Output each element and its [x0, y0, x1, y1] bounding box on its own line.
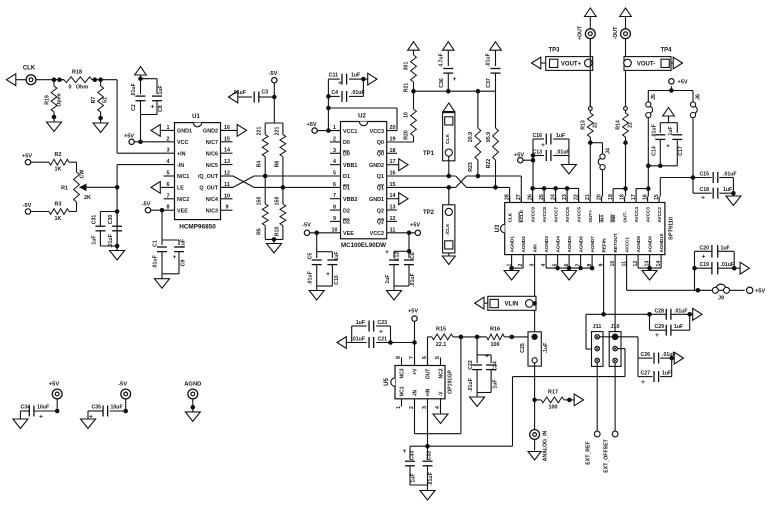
svg-text:+5V: +5V [408, 309, 418, 315]
svg-text:AVCC4: AVCC4 [634, 207, 639, 223]
svg-text:AVCC5: AVCC5 [577, 207, 582, 223]
svg-text:AGND1: AGND1 [510, 236, 515, 253]
svg-text:VCC1: VCC1 [343, 129, 357, 135]
svg-text:R14: R14 [616, 120, 622, 130]
svg-text:C22: C22 [468, 360, 474, 370]
svg-text:.01uF: .01uF [662, 352, 676, 358]
svg-text:AVCC9: AVCC9 [531, 207, 536, 223]
svg-text:Q0: Q0 [377, 140, 384, 146]
svg-text:GND2: GND2 [203, 129, 218, 135]
svg-text:Ohm: Ohm [76, 85, 88, 91]
svg-text:CLK: CLK [23, 66, 36, 72]
svg-text:LE: LE [177, 186, 184, 192]
svg-text:U1: U1 [192, 114, 200, 120]
svg-text:U3: U3 [495, 224, 501, 232]
svg-text:-5V: -5V [118, 382, 127, 388]
svg-text:AGND10: AGND10 [659, 233, 664, 252]
svg-text:R7: R7 [91, 97, 97, 104]
svg-text:+: + [655, 332, 659, 339]
svg-text:CW: CW [80, 170, 86, 179]
svg-text:CLK: CLK [445, 134, 451, 144]
svg-text:+: + [485, 353, 489, 360]
svg-text:1uF: 1uF [668, 126, 674, 135]
svg-text:U2: U2 [358, 114, 366, 120]
svg-text:VLIN: VLIN [505, 302, 519, 308]
svg-text:OP191GP: OP191GP [448, 370, 454, 394]
svg-text:INA: INA [600, 214, 605, 223]
svg-text:OUT-: OUT- [623, 211, 628, 223]
svg-text:EXT_REF: EXT_REF [586, 441, 592, 464]
svg-text:VBB2: VBB2 [343, 197, 357, 203]
svg-text:OUT+: OUT+ [588, 210, 593, 223]
svg-text:10uF: 10uF [111, 405, 123, 411]
svg-text:+IN: +IN [425, 388, 431, 396]
svg-text:221: 221 [275, 127, 281, 136]
svg-text:1uF: 1uF [181, 239, 187, 248]
svg-text:150: 150 [275, 197, 281, 206]
svg-text:Q1: Q1 [377, 174, 384, 180]
svg-text:OUT: OUT [425, 369, 431, 380]
svg-text:1uF: 1uF [158, 85, 164, 94]
svg-text:R20: R20 [404, 130, 410, 140]
svg-text:+V: +V [412, 368, 418, 375]
svg-text:C4: C4 [331, 90, 338, 96]
svg-text:-V: -V [438, 391, 444, 397]
svg-text:AVCC3: AVCC3 [646, 207, 651, 223]
svg-text:+: + [701, 195, 705, 202]
svg-text:N/C1: N/C1 [177, 174, 189, 180]
svg-text:R21: R21 [404, 83, 410, 93]
svg-text:.01uF: .01uF [351, 337, 365, 343]
svg-text:N/C3: N/C3 [206, 208, 218, 214]
svg-text:J11: J11 [593, 324, 602, 330]
svg-text:+5V: +5V [755, 289, 765, 295]
svg-text:CLK: CLK [508, 212, 513, 222]
svg-text:R2: R2 [55, 152, 62, 158]
svg-text:+5V: +5V [678, 80, 688, 86]
svg-text:+: + [379, 329, 383, 336]
svg-text:1uF: 1uF [723, 187, 732, 193]
svg-text:AGND5: AGND5 [567, 236, 572, 253]
svg-text:150: 150 [256, 197, 262, 206]
svg-text:C9: C9 [181, 260, 187, 267]
svg-text:0: 0 [69, 85, 72, 91]
svg-text:.01uF: .01uF [556, 150, 570, 156]
svg-text:AVCC8: AVCC8 [542, 207, 547, 223]
svg-text:-IN: -IN [412, 389, 418, 396]
svg-text:HCMP96850: HCMP96850 [179, 224, 216, 231]
svg-text:C30: C30 [108, 215, 114, 225]
svg-text:N/C6: N/C6 [206, 151, 218, 157]
svg-text:+: + [453, 76, 457, 83]
svg-text:.01uF: .01uF [486, 53, 492, 67]
svg-text:6: 6 [333, 182, 336, 188]
svg-text:C37: C37 [486, 78, 492, 88]
svg-text:+: + [173, 254, 177, 261]
svg-text:.01uF: .01uF [723, 172, 737, 178]
svg-text:.01uF: .01uF [131, 83, 137, 97]
svg-text:1uF: 1uF [674, 324, 683, 330]
svg-text:N/C2: N/C2 [177, 197, 189, 203]
svg-text:+: + [702, 254, 706, 261]
svg-text:22.1: 22.1 [436, 342, 447, 348]
svg-text:2K: 2K [84, 195, 91, 201]
svg-text:1uF: 1uF [356, 320, 365, 326]
svg-text:VCC: VCC [177, 140, 188, 146]
svg-text:J6: J6 [696, 94, 702, 100]
svg-text:GND1: GND1 [369, 197, 384, 203]
svg-text:+: + [385, 249, 389, 256]
svg-text:TP4: TP4 [660, 48, 672, 54]
svg-text:.1uF: .1uF [543, 343, 549, 354]
svg-text:.01uF: .01uF [410, 273, 416, 287]
svg-text:REFIN: REFIN [602, 238, 607, 253]
svg-text:VOUT-: VOUT- [637, 62, 655, 68]
svg-text:R15: R15 [436, 327, 446, 333]
svg-text:+: + [666, 143, 670, 150]
svg-text:1uF: 1uF [662, 371, 671, 377]
svg-text:C24: C24 [492, 361, 498, 371]
svg-text:1uF: 1uF [385, 274, 391, 283]
svg-text:AVCC6: AVCC6 [565, 207, 570, 223]
svg-text:R18: R18 [72, 70, 82, 76]
svg-text:VOUT+: VOUT+ [561, 62, 582, 68]
svg-text:-OUT: -OUT [613, 26, 619, 40]
svg-text:NC1: NC1 [399, 386, 405, 396]
svg-text:C28: C28 [654, 308, 664, 314]
svg-text:C12: C12 [395, 252, 401, 262]
svg-text:C8: C8 [158, 105, 164, 112]
svg-text:95.9: 95.9 [486, 132, 492, 142]
svg-text:.01uF: .01uF [108, 234, 114, 248]
svg-text:AGND: AGND [184, 382, 201, 388]
svg-text:VCC3: VCC3 [370, 129, 384, 135]
svg-text:AGND7: AGND7 [590, 236, 595, 253]
svg-text:C32: C32 [427, 451, 433, 461]
svg-text:-IN: -IN [177, 163, 184, 169]
svg-text:NC3: NC3 [399, 368, 405, 378]
svg-text:AGND6: AGND6 [579, 236, 584, 253]
svg-text:221: 221 [256, 127, 262, 136]
svg-text:AGND3: AGND3 [544, 236, 549, 253]
svg-text:C2: C2 [131, 104, 137, 111]
svg-text:D2: D2 [343, 220, 350, 226]
svg-text:Q2: Q2 [377, 220, 384, 226]
svg-text:10: 10 [404, 112, 410, 118]
svg-text:1uF: 1uF [92, 235, 98, 244]
svg-text:J4: J4 [606, 148, 612, 154]
svg-text:R13: R13 [581, 120, 587, 130]
svg-text:C6: C6 [410, 252, 416, 259]
svg-text:INB: INB [611, 214, 616, 223]
svg-text:+: + [151, 104, 155, 111]
svg-text:R5: R5 [256, 228, 262, 235]
svg-text:+: + [641, 379, 645, 386]
svg-text:C31: C31 [92, 215, 98, 225]
svg-text:100: 100 [549, 405, 558, 411]
svg-text:+: + [39, 414, 43, 421]
svg-text:.01uF: .01uF [721, 262, 735, 268]
svg-text:C11: C11 [329, 73, 338, 79]
svg-text:C1: C1 [153, 240, 159, 247]
svg-text:1uF: 1uF [351, 73, 360, 79]
svg-text:AGND4: AGND4 [556, 236, 561, 253]
svg-text:D0: D0 [343, 152, 350, 158]
svg-text:N/C5: N/C5 [206, 163, 218, 169]
svg-text:+5V: +5V [49, 382, 60, 388]
svg-text:Q1: Q1 [377, 186, 384, 192]
svg-text:+IN: +IN [177, 151, 186, 157]
svg-text:C17: C17 [678, 146, 684, 156]
svg-text:C27: C27 [640, 371, 650, 377]
svg-text:EXT_OFFSET: EXT_OFFSET [604, 438, 610, 472]
svg-text:+: + [403, 448, 407, 455]
svg-text:C35: C35 [91, 405, 101, 411]
svg-text:R4: R4 [256, 161, 262, 168]
svg-text:+: + [326, 271, 330, 278]
svg-text:1K: 1K [55, 167, 62, 173]
svg-text:VBB1: VBB1 [343, 163, 357, 169]
svg-text:C16: C16 [532, 133, 542, 139]
svg-text:N/C4: N/C4 [206, 197, 218, 203]
svg-text:+5V: +5V [306, 122, 316, 128]
svg-text:C33: C33 [410, 451, 416, 461]
svg-text:C36: C36 [439, 78, 445, 88]
svg-text:C5: C5 [308, 253, 314, 260]
svg-text:R22: R22 [486, 159, 492, 169]
svg-text:+: + [541, 142, 545, 149]
svg-text:C23: C23 [378, 320, 388, 326]
svg-text:22: 22 [593, 122, 599, 128]
svg-text:1uF: 1uF [492, 379, 498, 388]
svg-text:R6: R6 [275, 161, 281, 168]
svg-text:.01uF: .01uF [232, 90, 246, 96]
svg-text:C34: C34 [20, 405, 30, 411]
svg-text:4.7uF: 4.7uF [439, 53, 445, 67]
svg-text:Q2: Q2 [377, 208, 384, 214]
svg-text:100: 100 [491, 342, 500, 348]
svg-text:.01uF: .01uF [468, 378, 474, 392]
svg-text:C15: C15 [699, 172, 709, 178]
svg-text:R10: R10 [275, 227, 281, 237]
svg-text:ECLK: ECLK [519, 209, 524, 222]
svg-text:AIN: AIN [533, 244, 538, 253]
svg-text:5: 5 [333, 171, 336, 177]
svg-text:.01uF: .01uF [153, 255, 159, 269]
svg-text:GND2: GND2 [369, 163, 384, 169]
svg-text:N/C7: N/C7 [206, 140, 218, 146]
svg-text:C29: C29 [654, 324, 664, 330]
svg-text:VEE: VEE [343, 231, 354, 237]
svg-text:R3: R3 [55, 202, 62, 208]
svg-text:+5V: +5V [124, 134, 134, 140]
svg-text:R23: R23 [468, 162, 474, 172]
svg-text:MC100EL90DW: MC100EL90DW [341, 242, 386, 249]
svg-text:1uF: 1uF [721, 245, 730, 251]
svg-text:4: 4 [167, 159, 170, 165]
svg-text:C10: C10 [334, 275, 340, 285]
svg-text:-5V: -5V [269, 71, 278, 77]
svg-text:Q0: Q0 [377, 152, 384, 158]
svg-text:GND1: GND1 [177, 129, 192, 135]
svg-text:20.9: 20.9 [468, 132, 474, 142]
svg-text:D2: D2 [343, 208, 350, 214]
svg-text:TP1: TP1 [423, 151, 435, 157]
svg-text:C20: C20 [699, 245, 709, 251]
svg-text:C14: C14 [651, 146, 657, 156]
svg-text:C25: C25 [520, 343, 526, 353]
svg-text:3: 3 [167, 148, 170, 154]
svg-text:1uF: 1uF [411, 473, 417, 482]
svg-text:AVCC2: AVCC2 [657, 207, 662, 223]
svg-text:R17: R17 [548, 390, 558, 396]
svg-text:+OUT: +OUT [578, 25, 584, 40]
svg-text:-5V: -5V [23, 203, 32, 209]
svg-text:51: 51 [103, 97, 109, 103]
svg-text:+: + [338, 80, 342, 87]
svg-text:TP2: TP2 [423, 210, 435, 216]
svg-text:C21: C21 [378, 337, 388, 343]
svg-text:ANALOG_IN: ANALOG_IN [543, 430, 549, 461]
svg-text:10uF: 10uF [37, 405, 49, 411]
svg-text:C19: C19 [699, 262, 709, 268]
svg-text:.01uF: .01uF [651, 124, 657, 138]
svg-text:-5V: -5V [302, 223, 311, 229]
svg-text:.01uF: .01uF [308, 271, 314, 285]
svg-text:U5: U5 [384, 378, 390, 386]
svg-text:+5V: +5V [410, 223, 420, 229]
svg-text:22: 22 [628, 122, 634, 128]
svg-text:1K: 1K [55, 216, 62, 222]
svg-text:VCC2: VCC2 [370, 231, 384, 237]
svg-text:NC2: NC2 [438, 368, 444, 378]
svg-text:C13: C13 [532, 150, 542, 156]
svg-text:D1: D1 [343, 186, 350, 192]
svg-text:VEE: VEE [177, 208, 188, 214]
svg-text:D1: D1 [343, 174, 350, 180]
svg-text:Open: Open [57, 93, 63, 106]
svg-text:C3: C3 [262, 90, 269, 96]
svg-text:.01uF: .01uF [351, 90, 365, 96]
svg-text:J10: J10 [611, 324, 620, 330]
svg-text:R1: R1 [61, 186, 68, 192]
svg-text:D0: D0 [343, 140, 350, 146]
svg-text:/CLK: /CLK [445, 223, 451, 235]
svg-text:AGND8: AGND8 [636, 236, 641, 253]
svg-text:1uF: 1uF [556, 133, 565, 139]
svg-text:J9: J9 [718, 296, 724, 302]
svg-text:R19: R19 [45, 95, 51, 105]
svg-text:AGND2: AGND2 [521, 236, 526, 253]
svg-text:/Q_OUT: /Q_OUT [198, 174, 219, 180]
svg-text:R16: R16 [490, 327, 500, 333]
svg-text:C26: C26 [640, 352, 650, 358]
svg-text:AVCC1: AVCC1 [625, 237, 630, 253]
svg-text:C18: C18 [699, 187, 709, 193]
svg-text:+5V: +5V [22, 154, 32, 160]
svg-text:SPT9110: SPT9110 [669, 217, 675, 240]
svg-text:AGND9: AGND9 [648, 236, 653, 253]
svg-text:J5: J5 [651, 94, 657, 100]
svg-text:AVCC7: AVCC7 [554, 207, 559, 223]
svg-text:Q_OUT: Q_OUT [199, 186, 218, 192]
svg-text:RETOUT: RETOUT [613, 233, 618, 252]
svg-text:TP3: TP3 [548, 48, 560, 54]
svg-text:.01uF: .01uF [674, 308, 688, 314]
svg-text:-5V: -5V [142, 202, 151, 208]
svg-text:301: 301 [404, 62, 410, 71]
svg-text:1uF: 1uF [334, 251, 340, 260]
svg-text:.01uF: .01uF [428, 472, 434, 486]
